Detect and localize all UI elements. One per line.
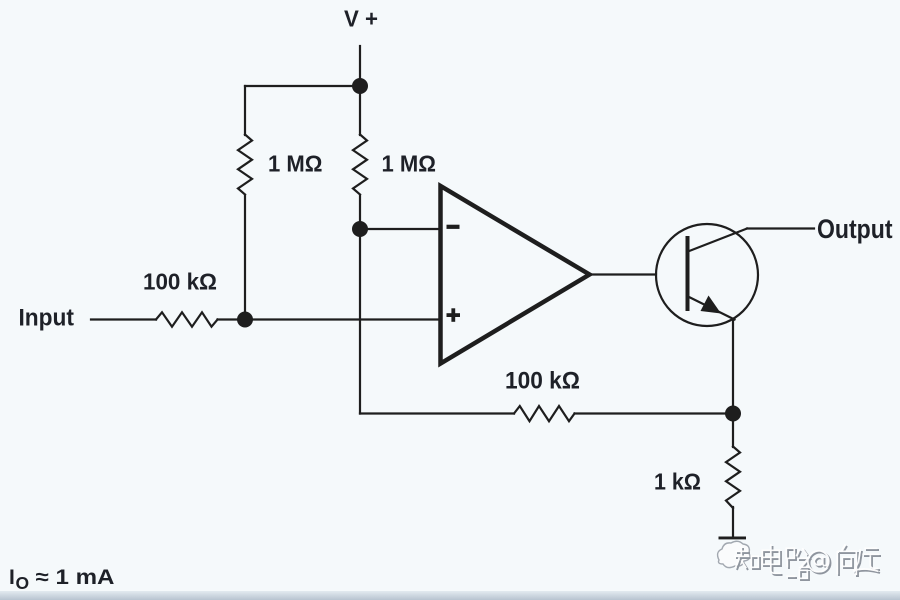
svg-text:1 MΩ: 1 MΩ <box>382 151 437 177</box>
svg-text:≈ 1 mA: ≈ 1 mA <box>36 566 115 589</box>
svg-text:I: I <box>9 566 15 589</box>
svg-text:1 kΩ: 1 kΩ <box>654 469 701 495</box>
svg-text:1 MΩ: 1 MΩ <box>268 151 323 177</box>
svg-text:Output: Output <box>817 214 893 244</box>
svg-text:100 kΩ: 100 kΩ <box>143 269 217 295</box>
svg-text:V +: V + <box>344 6 378 32</box>
svg-text:Input: Input <box>19 304 75 331</box>
svg-text:100 kΩ: 100 kΩ <box>505 368 580 395</box>
svg-text:O: O <box>16 573 30 593</box>
